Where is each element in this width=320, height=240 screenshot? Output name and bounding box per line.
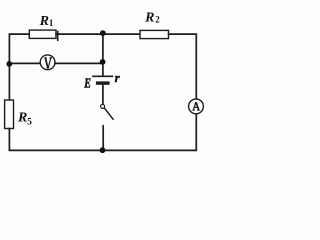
resistor R1 bbox=[29, 30, 56, 38]
wire switch to bottom node bbox=[102, 126, 104, 151]
wire top-left (corner to R1) bbox=[9, 34, 29, 64]
svg-text:R: R bbox=[39, 14, 49, 29]
wire R5 to bottom-left corner bbox=[9, 129, 102, 151]
battery E long plate bbox=[93, 75, 112, 77]
tick at R1 right lead bbox=[57, 32, 59, 41]
svg-text:1: 1 bbox=[49, 18, 54, 28]
wire R1 to node A bbox=[56, 33, 103, 35]
svg-text:R: R bbox=[144, 11, 154, 26]
battery E short plate bbox=[98, 81, 108, 84]
wire left: V-node down to R5 bbox=[8, 64, 10, 100]
wire V branch right bbox=[55, 62, 103, 64]
resistor R2 bbox=[140, 30, 169, 38]
svg-text:2: 2 bbox=[155, 15, 160, 25]
resistor R5 bbox=[5, 100, 14, 129]
wire R2 to top-right corner bbox=[169, 34, 197, 99]
wire V branch left bbox=[9, 62, 40, 64]
wire battery to switch bbox=[102, 85, 104, 104]
node C junction dot (left) bbox=[6, 61, 12, 67]
wire node B to battery bbox=[102, 62, 104, 76]
node D junction dot (bottom) bbox=[100, 147, 106, 153]
wire node A to R2 bbox=[103, 33, 140, 35]
ammeter letter A bbox=[193, 102, 200, 110]
bottom wire right half bbox=[103, 114, 197, 151]
svg-text:R: R bbox=[17, 110, 27, 125]
wire middle: node A to node B bbox=[102, 34, 104, 62]
node B junction dot bbox=[100, 59, 106, 65]
voltmeter letter V bbox=[44, 58, 52, 69]
ammeter A1 circle bbox=[189, 99, 204, 114]
voltmeter V1 circle bbox=[40, 55, 55, 70]
node A junction dot bbox=[100, 30, 106, 36]
svg-text:E: E bbox=[83, 75, 91, 91]
switch S blade bbox=[105, 108, 114, 119]
svg-text:5: 5 bbox=[27, 118, 32, 128]
switch S pivot bbox=[101, 104, 105, 108]
